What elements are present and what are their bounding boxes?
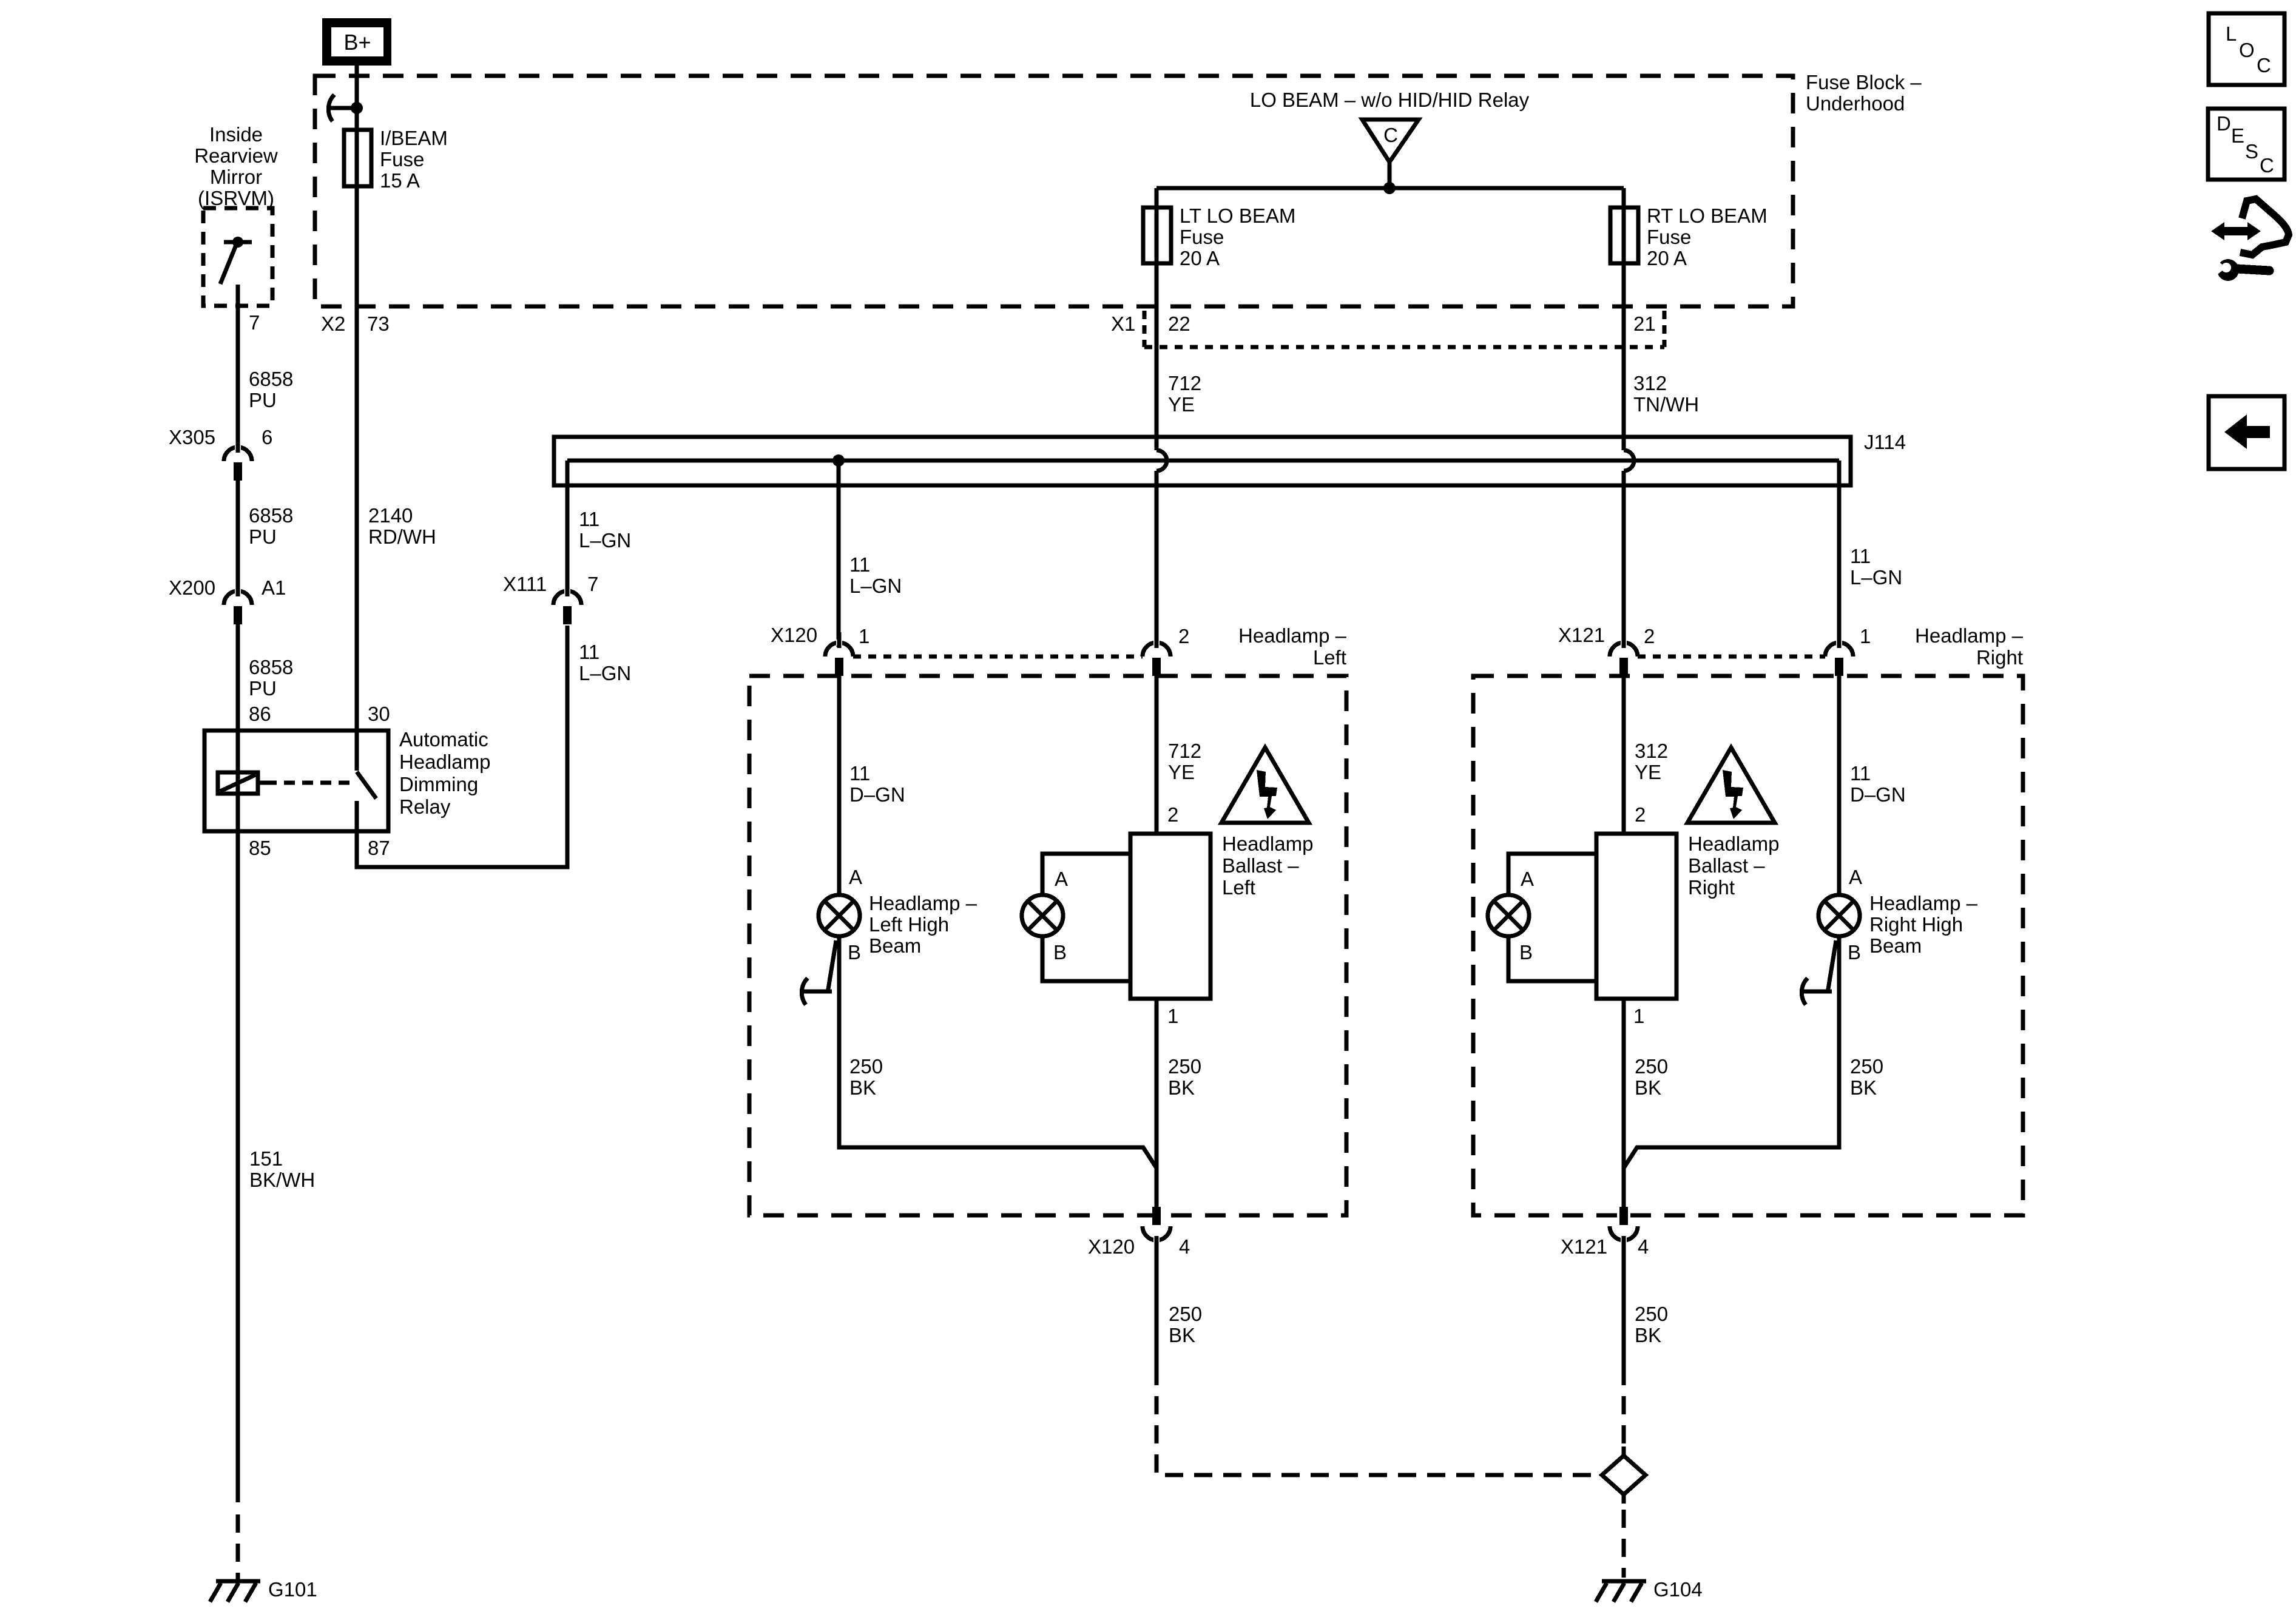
service/diagnostic icon (double arrow, body outline, wrench) xyxy=(2210,199,2289,281)
svg-text:C: C xyxy=(2257,54,2271,76)
Headlamp - Left dashed box xyxy=(749,676,1346,1215)
wire 312 TN/WH: RT fuse down through J114 to X121-2 xyxy=(1624,450,1634,471)
Headlamp - Right dashed box xyxy=(1473,676,2023,1215)
svg-text:G104: G104 xyxy=(1653,1578,1703,1601)
warning triangle high voltage xyxy=(1687,748,1775,823)
svg-text:A: A xyxy=(1055,868,1068,890)
svg-text:4: 4 xyxy=(1179,1235,1190,1258)
svg-text:250: 250 xyxy=(1635,1303,1668,1325)
svg-text:250: 250 xyxy=(1850,1055,1883,1078)
svg-text:X2: X2 xyxy=(321,312,345,335)
wire 11 L-GN: J114 right end down to X121-1 xyxy=(1837,461,1842,647)
svg-text:PU: PU xyxy=(249,677,277,700)
shell clip at left high beam xyxy=(828,940,836,993)
svg-text:73: 73 xyxy=(367,312,390,335)
svg-text:250: 250 xyxy=(849,1055,883,1078)
svg-text:Headlamp –: Headlamp – xyxy=(1869,892,1978,914)
X120 connector dashed boundary xyxy=(853,655,1143,659)
wire 11 D-GN to right high beam xyxy=(1837,676,1842,895)
svg-text:X120: X120 xyxy=(771,624,817,646)
svg-text:Beam: Beam xyxy=(869,934,921,957)
svg-text:BK: BK xyxy=(849,1076,876,1099)
LOC button xyxy=(2209,13,2284,85)
svg-text:L–GN: L–GN xyxy=(849,575,902,597)
wire 6858 PU: X305 to X200 xyxy=(236,481,240,595)
svg-text:BK: BK xyxy=(1635,1324,1661,1346)
svg-text:LO BEAM – w/o HID/HID Relay: LO BEAM – w/o HID/HID Relay xyxy=(1250,89,1530,111)
svg-text:Fuse Block –: Fuse Block – xyxy=(1806,71,1922,93)
svg-text:22: 22 xyxy=(1168,312,1190,335)
svg-text:X120: X120 xyxy=(1088,1235,1135,1258)
svg-text:D–GN: D–GN xyxy=(1850,783,1906,806)
svg-text:(ISRVM): (ISRVM) xyxy=(198,187,274,209)
svg-text:4: 4 xyxy=(1638,1235,1649,1258)
svg-text:85: 85 xyxy=(249,837,271,859)
svg-text:X305: X305 xyxy=(169,426,215,448)
svg-text:BK: BK xyxy=(1850,1076,1877,1099)
svg-text:11: 11 xyxy=(1850,762,1871,785)
svg-text:Ballast –: Ballast – xyxy=(1688,854,1765,877)
svg-text:Automatic: Automatic xyxy=(399,728,488,751)
svg-text:TN/WH: TN/WH xyxy=(1633,393,1699,416)
svg-text:B: B xyxy=(848,941,861,964)
relay coil xyxy=(218,772,258,794)
svg-text:Headlamp: Headlamp xyxy=(1222,832,1313,855)
svg-text:BK: BK xyxy=(1168,1076,1195,1099)
svg-text:X121: X121 xyxy=(1558,624,1605,646)
ground splice diamond xyxy=(1602,1456,1646,1494)
svg-text:2140: 2140 xyxy=(368,504,413,527)
connector X121 pin 4 xyxy=(1610,1226,1638,1240)
svg-text:YE: YE xyxy=(1168,761,1195,783)
svg-text:B+: B+ xyxy=(343,30,371,55)
svg-text:J114: J114 xyxy=(1864,431,1906,453)
wire 712 YE into ballast pin 2 xyxy=(1155,676,1159,834)
wire 250 BK from right high beam xyxy=(1624,936,1839,1168)
svg-text:PU: PU xyxy=(249,525,277,548)
wire: lo beam bus between fuses xyxy=(1156,186,1624,191)
svg-text:Right High: Right High xyxy=(1869,913,1963,936)
relay actuating dashed link xyxy=(266,781,350,785)
svg-text:312: 312 xyxy=(1633,372,1667,394)
ground G104 xyxy=(1602,1579,1646,1584)
svg-text:L–GN: L–GN xyxy=(1850,566,1902,589)
svg-text:O: O xyxy=(2239,39,2255,61)
svg-text:7: 7 xyxy=(587,573,598,595)
svg-text:C: C xyxy=(1383,124,1398,146)
wire 712 YE: LT fuse down through J114 to X120-2 xyxy=(1156,450,1167,471)
svg-text:312: 312 xyxy=(1635,740,1668,762)
svg-text:6858: 6858 xyxy=(249,504,293,527)
svg-text:712: 712 xyxy=(1168,740,1201,762)
svg-text:Left: Left xyxy=(1222,876,1255,899)
svg-text:87: 87 xyxy=(368,837,390,859)
Headlamp Ballast - Left xyxy=(1130,834,1210,999)
svg-text:X121: X121 xyxy=(1561,1235,1607,1258)
ISRVM internal switch xyxy=(232,237,243,248)
svg-text:C: C xyxy=(2260,154,2274,177)
warning triangle high voltage xyxy=(1221,748,1309,823)
svg-text:250: 250 xyxy=(1169,1303,1202,1325)
X121 connector dashed boundary xyxy=(1638,655,1825,659)
wire 250 BK to ground xyxy=(1622,1236,1626,1385)
svg-text:1: 1 xyxy=(1860,625,1871,647)
Fuse Block - Underhood dashed box xyxy=(315,76,1793,306)
svg-text:A: A xyxy=(1521,868,1534,890)
svg-text:20 A: 20 A xyxy=(1647,247,1687,269)
svg-text:PU: PU xyxy=(249,389,277,411)
svg-text:D: D xyxy=(2217,112,2231,135)
svg-text:11: 11 xyxy=(579,508,599,530)
svg-text:D–GN: D–GN xyxy=(849,783,905,806)
wire ISRVM pin 7 to X305 xyxy=(236,285,240,451)
svg-text:250: 250 xyxy=(1168,1055,1201,1078)
svg-text:Headlamp: Headlamp xyxy=(1688,832,1779,855)
svg-text:Right: Right xyxy=(1688,876,1735,899)
svg-text:BK: BK xyxy=(1635,1076,1661,1099)
svg-text:15 A: 15 A xyxy=(380,169,420,192)
B+ battery feed symbol xyxy=(322,18,391,66)
svg-text:A: A xyxy=(1849,866,1862,888)
svg-text:2: 2 xyxy=(1167,803,1178,826)
svg-text:1: 1 xyxy=(1633,1005,1644,1027)
svg-text:LT LO BEAM: LT LO BEAM xyxy=(1180,204,1295,227)
svg-text:Headlamp –: Headlamp – xyxy=(1238,624,1347,647)
svg-text:Headlamp –: Headlamp – xyxy=(1915,624,2024,647)
svg-text:X111: X111 xyxy=(503,573,547,595)
svg-text:Left: Left xyxy=(1313,646,1346,669)
svg-text:L: L xyxy=(2226,22,2237,45)
svg-text:Left High: Left High xyxy=(869,913,949,936)
svg-text:X1: X1 xyxy=(1111,312,1135,335)
svg-text:Relay: Relay xyxy=(399,795,451,818)
svg-text:Right: Right xyxy=(1976,646,2023,669)
svg-text:2: 2 xyxy=(1178,625,1189,647)
svg-text:86: 86 xyxy=(249,703,271,725)
svg-text:151: 151 xyxy=(249,1147,283,1170)
svg-text:11: 11 xyxy=(849,553,870,576)
fuse LT LO BEAM 20 A xyxy=(1155,188,1159,450)
wire 312 YE into ballast pin 2 xyxy=(1622,676,1626,834)
svg-text:11: 11 xyxy=(1850,545,1871,567)
svg-text:Dimming: Dimming xyxy=(399,773,478,795)
svg-text:X200: X200 xyxy=(169,576,215,599)
junction dot xyxy=(351,102,363,114)
wire 151 BK/WH: relay 85 to G101 xyxy=(236,831,240,1502)
svg-text:L–GN: L–GN xyxy=(579,529,631,552)
svg-text:30: 30 xyxy=(368,703,390,725)
svg-text:Mirror: Mirror xyxy=(210,166,262,188)
ballast lamp loop xyxy=(1508,854,1596,895)
svg-text:YE: YE xyxy=(1168,393,1195,416)
svg-text:RD/WH: RD/WH xyxy=(368,525,436,548)
svg-text:Headlamp: Headlamp xyxy=(399,751,490,773)
svg-text:Underhood: Underhood xyxy=(1806,92,1905,115)
svg-text:B: B xyxy=(1848,941,1861,964)
shell clip at right high beam xyxy=(1828,940,1836,993)
svg-text:2: 2 xyxy=(1644,625,1655,647)
back arrow button xyxy=(2209,396,2284,469)
splice pack J114 xyxy=(554,437,1851,485)
svg-text:1: 1 xyxy=(1167,1005,1178,1027)
svg-text:I/BEAM: I/BEAM xyxy=(380,127,448,149)
svg-text:11: 11 xyxy=(579,641,599,663)
svg-text:20 A: 20 A xyxy=(1180,247,1220,269)
svg-text:11: 11 xyxy=(849,762,870,785)
fuse I/BEAM 15 A xyxy=(344,130,371,186)
connector X120 pin 4 xyxy=(1143,1226,1170,1240)
svg-text:2: 2 xyxy=(1635,803,1646,826)
wire 11 L-GN: J114 dot down to X120-1 xyxy=(837,461,841,647)
J114 internal bus xyxy=(567,459,1839,463)
svg-text:S: S xyxy=(2245,140,2258,163)
Headlamp Ballast - Right xyxy=(1596,834,1676,999)
svg-text:BK/WH: BK/WH xyxy=(249,1169,315,1191)
svg-text:Rearview: Rearview xyxy=(194,144,278,167)
svg-text:Fuse: Fuse xyxy=(1647,226,1691,248)
junction dot on bus xyxy=(832,454,845,467)
connector X1 row xyxy=(1143,311,1147,347)
wire 6858 PU: X200 to relay pin 86 xyxy=(236,624,240,831)
svg-text:1: 1 xyxy=(859,625,869,647)
wire B+ to I/BEAM fuse xyxy=(355,66,359,731)
svg-text:Fuse: Fuse xyxy=(1180,226,1224,248)
svg-text:E: E xyxy=(2231,124,2244,147)
svg-text:Fuse: Fuse xyxy=(380,148,424,170)
relay switch contacts 30-87 xyxy=(355,731,359,771)
svg-text:RT LO BEAM: RT LO BEAM xyxy=(1647,204,1768,227)
svg-text:Headlamp –: Headlamp – xyxy=(869,892,977,914)
ground G101 xyxy=(216,1579,260,1584)
svg-text:G101: G101 xyxy=(268,1578,317,1601)
fuse RT LO BEAM 20 A xyxy=(1622,188,1626,450)
svg-text:7: 7 xyxy=(249,311,260,334)
svg-text:6858: 6858 xyxy=(249,368,293,390)
svg-text:BK: BK xyxy=(1169,1324,1195,1346)
wire 250 BK to ground splice xyxy=(1155,1236,1159,1385)
svg-text:YE: YE xyxy=(1635,761,1661,783)
wire 11 D-GN to left high beam xyxy=(837,676,842,895)
svg-text:6: 6 xyxy=(262,426,272,448)
svg-text:Ballast –: Ballast – xyxy=(1222,854,1299,877)
DESC button xyxy=(2208,109,2284,180)
svg-text:Inside: Inside xyxy=(209,123,263,146)
svg-text:B: B xyxy=(1053,941,1067,964)
svg-text:712: 712 xyxy=(1168,372,1201,394)
svg-text:21: 21 xyxy=(1633,312,1656,335)
fusible link hook at B+ feed xyxy=(328,95,334,121)
svg-text:B: B xyxy=(1519,941,1533,964)
wire 11 L-GN: X111 up to J114 xyxy=(566,461,570,595)
svg-text:Beam: Beam xyxy=(1869,934,1922,957)
svg-text:250: 250 xyxy=(1635,1055,1668,1078)
ballast lamp loop xyxy=(1042,854,1130,895)
svg-text:6858: 6858 xyxy=(249,656,293,678)
svg-text:L–GN: L–GN xyxy=(579,662,631,684)
wire: relay 87 to X111 xyxy=(357,626,567,867)
svg-text:A1: A1 xyxy=(262,576,286,599)
wire 250 BK from left high beam xyxy=(839,936,1156,1168)
svg-text:A: A xyxy=(849,866,862,888)
